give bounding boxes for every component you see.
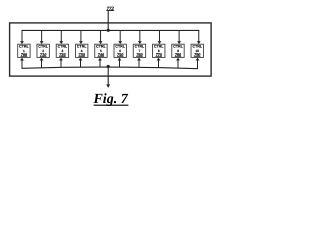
wire: top arrow into CTRL 7 — [138, 30, 142, 44]
wire: top arrow into CTRL 4 — [79, 30, 83, 44]
wire: bottom arrow into CTRL 2 — [40, 58, 44, 68]
controller box CTRL 3 (720) — [56, 44, 68, 57]
wire: bottom arrow into CTRL 7 — [137, 58, 141, 68]
svg-text:790: 790 — [194, 52, 201, 57]
svg-text:CTRL: CTRL — [96, 44, 106, 48]
svg-text:730: 730 — [79, 52, 86, 57]
svg-text:CTRL: CTRL — [173, 44, 183, 48]
svg-text:750: 750 — [117, 52, 124, 57]
junction dot on top bus — [107, 29, 110, 32]
wire: top arrow into CTRL 2 — [40, 30, 44, 44]
wire: top arrow into CTRL 1 — [20, 30, 24, 44]
svg-text:CTRL: CTRL — [192, 44, 202, 48]
bottom collection bus wire (slightly bowed like the scan) — [22, 67, 199, 69]
svg-text:710: 710 — [40, 52, 47, 57]
junction dot on bottom bus — [107, 65, 110, 68]
controller box CTRL 4 (730) — [75, 44, 87, 57]
svg-text:720: 720 — [59, 52, 66, 57]
wire: top arrow into CTRL 3 — [59, 30, 63, 44]
controller box CTRL 7 (760) — [133, 44, 145, 57]
svg-text:772: 772 — [107, 6, 115, 12]
wire: bottom arrow into CTRL 1 — [20, 58, 24, 69]
controller box CTRL 2 (710) — [37, 44, 49, 57]
wire: top arrow into CTRL 8 — [158, 30, 162, 44]
svg-text:760: 760 — [136, 52, 143, 57]
controller box CTRL 5 (740) — [95, 44, 107, 57]
controller box CTRL 10 (790) — [191, 44, 203, 57]
wire: bottom arrow into CTRL 3 — [59, 58, 63, 68]
wire: output arrow from bottom bus — [106, 66, 110, 88]
svg-text:CTRL: CTRL — [154, 44, 164, 48]
svg-text:CTRL: CTRL — [77, 44, 87, 48]
svg-text:Fig. 7: Fig. 7 — [92, 92, 128, 107]
controller box CTRL 6 (750) — [114, 44, 126, 57]
controller box CTRL 9 (780) — [172, 44, 184, 57]
svg-text:CTRL: CTRL — [58, 44, 68, 48]
svg-text:780: 780 — [175, 52, 182, 57]
controller box CTRL 8 (770) — [153, 44, 165, 57]
svg-text:700: 700 — [21, 52, 28, 57]
svg-text:CTRL: CTRL — [38, 44, 48, 48]
wire: bottom arrow into CTRL 6 — [118, 58, 122, 68]
wire: bottom arrow into CTRL 4 — [79, 58, 83, 68]
wire: bottom arrow into CTRL 8 — [157, 58, 161, 68]
outer enclosure rectangle — [10, 23, 212, 76]
svg-text:CTRL: CTRL — [115, 44, 125, 48]
svg-text:740: 740 — [98, 52, 105, 57]
wire: feed line from label 772 down to top bus — [107, 11, 109, 30]
wire: bottom arrow into CTRL 10 — [196, 58, 200, 69]
wire: bottom arrow into CTRL 9 — [176, 58, 180, 69]
label 772 (top reference numeral) — [106, 6, 114, 12]
top distribution bus wire — [22, 29, 200, 31]
wire: top arrow into CTRL 10 — [197, 30, 201, 44]
wire: top arrow into CTRL 5 — [99, 30, 103, 44]
caption Fig. 7 — [92, 92, 128, 107]
svg-text:770: 770 — [156, 52, 163, 57]
wire: bottom arrow into CTRL 5 — [98, 58, 102, 68]
wire: top arrow into CTRL 9 — [177, 30, 181, 44]
svg-text:CTRL: CTRL — [135, 44, 145, 48]
wire: top arrow into CTRL 6 — [118, 30, 122, 44]
svg-text:CTRL: CTRL — [19, 44, 29, 48]
controller box CTRL 1 (700) — [18, 44, 30, 57]
